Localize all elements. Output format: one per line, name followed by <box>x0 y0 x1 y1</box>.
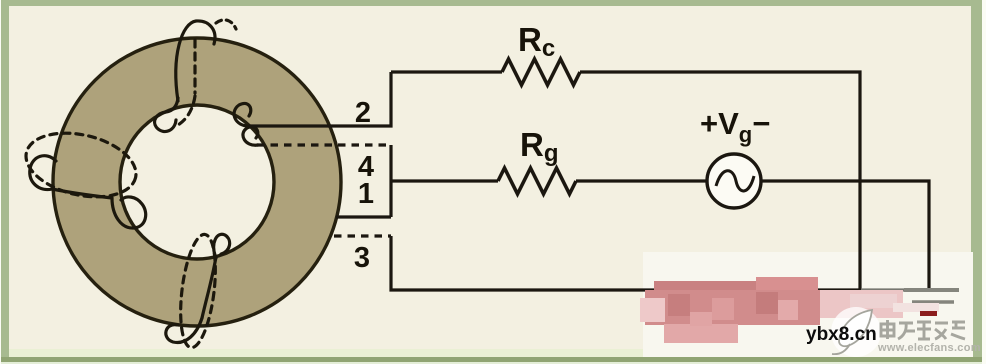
svg-text:2: 2 <box>355 97 371 129</box>
svg-text:+Vg−: +Vg− <box>700 106 770 147</box>
svg-text:ybx8.cn: ybx8.cn <box>806 324 877 345</box>
svg-text:www.elecfans.com: www.elecfans.com <box>877 342 981 354</box>
svg-text:1: 1 <box>358 178 374 210</box>
svg-text:3: 3 <box>354 242 370 274</box>
